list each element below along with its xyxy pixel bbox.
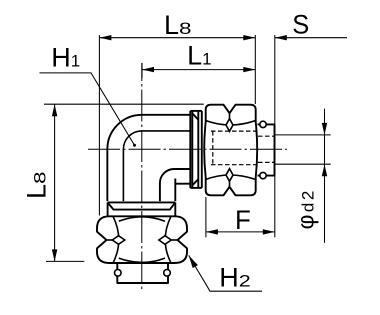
svg-text:S: S <box>292 10 309 40</box>
svg-text:F: F <box>235 205 251 235</box>
